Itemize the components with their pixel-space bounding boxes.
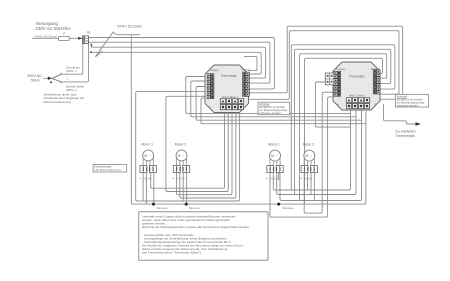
- note box achtung 2: [395, 94, 428, 107]
- svg-text:Trennrelais: Trennrelais: [221, 74, 237, 78]
- svg-text:Trennrelais: Trennrelais: [395, 133, 414, 138]
- svg-text:Motor 1: Motor 1: [268, 142, 280, 146]
- wire motor2L line y194: [176, 113, 232, 195]
- wire motor2R stub b: [307, 173, 309, 191]
- svg-text:Motor 1: Motor 1: [142, 142, 154, 146]
- relay U2 side connector: [325, 73, 334, 85]
- arrow into terminal block: [78, 37, 82, 40]
- bus line L3: [91, 43, 265, 78]
- node klemme dot 2: [185, 203, 188, 206]
- wire motor2L line y198: [180, 113, 236, 199]
- switch feed arrow: [44, 77, 48, 79]
- note box main: [139, 212, 268, 260]
- svg-text:Eingang: Eingang: [371, 69, 380, 71]
- wire motor1L stub b: [145, 173, 147, 205]
- wire under-device U2: [191, 81, 356, 117]
- wire motor1L stub a: [142, 173, 144, 202]
- svg-text:F: F: [63, 32, 65, 36]
- wire motor1R klemme dot riser: [278, 173, 280, 181]
- wire loop group G3: [300, 54, 387, 201]
- svg-text:Ausgang: Ausgang: [336, 68, 346, 71]
- svg-text:Motor 2 Motor 1: Motor 2 Motor 1: [222, 96, 239, 99]
- svg-text:Trennrelais: Trennrelais: [349, 75, 365, 79]
- WIRES-LAYER: [32, 26, 421, 217]
- switch lever up: [52, 73, 61, 79]
- svg-text:NYM-J 3x1,5mm²: NYM-J 3x1,5mm²: [35, 35, 58, 39]
- wire supply-in: [32, 37, 80, 39]
- svg-text:Motor 2: Motor 2: [175, 142, 187, 146]
- wire left loop inner: [166, 96, 228, 191]
- relay U2 (right Trennrelais): [325, 62, 380, 110]
- wire right-device drop 2: [277, 108, 356, 195]
- svg-text:Klemme: Klemme: [283, 206, 294, 210]
- up arrow on bus L4: [90, 51, 93, 53]
- svg-text:50Hz: 50Hz: [31, 79, 40, 83]
- wire motor1L klemme: [153, 173, 155, 205]
- motor M2 right: [300, 150, 317, 180]
- fuse F1: [59, 36, 70, 40]
- wire left loop outer: [136, 91, 240, 201]
- wire motor2L stub c: [182, 173, 184, 202]
- cable slash mark: [95, 32, 140, 57]
- wire right-device drop 3: [280, 108, 362, 201]
- svg-text:Eingang: Eingang: [241, 70, 250, 72]
- svg-text:Klemme: Klemme: [189, 206, 200, 210]
- down arrow below block: [90, 45, 92, 47]
- motor M2 left: [173, 150, 190, 180]
- wire under-device U4: [201, 98, 366, 124]
- svg-text:230V AC 50Hz/6A: 230V AC 50Hz/6A: [35, 26, 70, 31]
- svg-text:Motorleitungen:: Motorleitungen:: [95, 165, 113, 169]
- wire zentral-auf: [62, 43, 83, 74]
- wire motor2R to relay U2 left row: [304, 92, 333, 213]
- supply terminal block X1: [82, 36, 88, 44]
- node klemme dot 3: [277, 203, 280, 206]
- wire motor1L line y188: [151, 113, 225, 189]
- svg-text:230V AC: 230V AC: [27, 74, 42, 78]
- wire under-device U3: [196, 87, 361, 121]
- svg-text:z.B. NYM-J 5x1,5 mm²: z.B. NYM-J 5x1,5 mm²: [95, 168, 121, 172]
- wire right-device drop 1: [273, 108, 350, 191]
- wire zentral-senke: [62, 43, 89, 82]
- bus line L2: [89, 42, 270, 83]
- svg-text:PE: PE: [87, 31, 91, 35]
- wire top loop T2: [249, 31, 400, 100]
- wire connector down-around: [315, 82, 350, 127]
- svg-text:(230V ~): (230V ~): [66, 88, 77, 92]
- svg-text:(230V ~): (230V ~): [66, 69, 77, 73]
- wire top loop T1: [249, 26, 403, 99]
- wire loop group G2: [295, 49, 391, 194]
- wire under-device U1: [186, 77, 351, 114]
- switch lever down: [52, 79, 61, 84]
- svg-text:Motor 2: Motor 2: [303, 142, 315, 146]
- switch common up arrow: [50, 81, 52, 83]
- bus line L4: [91, 52, 261, 74]
- relay U1 bottom motor terminals: [220, 99, 225, 104]
- node klemme dot 1: [152, 203, 155, 206]
- svg-text:NYM-J 5x1,5mm²: NYM-J 5x1,5mm²: [117, 25, 142, 29]
- bus line L5: [244, 56, 257, 70]
- arrow zu-weiteren: [416, 122, 422, 126]
- wire zu-weiteren exit: [384, 104, 416, 124]
- svg-text:Ausgang: Ausgang: [210, 69, 220, 72]
- svg-text:Rohrmotorsteuerung: Rohrmotorsteuerung: [44, 100, 72, 104]
- wire motor2L klemme: [186, 173, 188, 205]
- note box achtung 1: [258, 102, 290, 115]
- wire loop group G1: [291, 45, 395, 190]
- svg-text:Klemme: Klemme: [157, 206, 168, 210]
- wire motor2R stub c: [310, 173, 312, 195]
- relay U1 (left Trennrelais): [205, 65, 249, 113]
- wire motor2R stub d: [313, 173, 315, 201]
- motor M1 left: [139, 150, 156, 180]
- TEXT-LAYER: [27, 21, 425, 255]
- wire vertical supply drop to klemme rail: [131, 35, 366, 204]
- svg-text:des Trennrelais (siehe "Techni: des Trennrelais (siehe "Technische Daten…: [142, 251, 201, 255]
- wire motor1R to relay U2 left row: [270, 97, 333, 217]
- note box motor cable: [93, 164, 127, 172]
- svg-text:Richtung der Wartungsarbeiten: Richtung der Wartungsarbeiten müssen all…: [142, 225, 250, 229]
- motor M1 right: [266, 150, 283, 180]
- wire loop group G4: [305, 58, 383, 204]
- svg-text:schlossen werden!: schlossen werden!: [397, 104, 419, 108]
- relay U2 bottom motor terminals: [346, 98, 351, 103]
- svg-text:Motor 2 Motor 1: Motor 2 Motor 1: [349, 95, 366, 98]
- svg-text:schlossen werden!: schlossen werden!: [259, 111, 281, 115]
- bus line L1: [89, 38, 275, 89]
- DEVICES-LAYER: [82, 36, 428, 260]
